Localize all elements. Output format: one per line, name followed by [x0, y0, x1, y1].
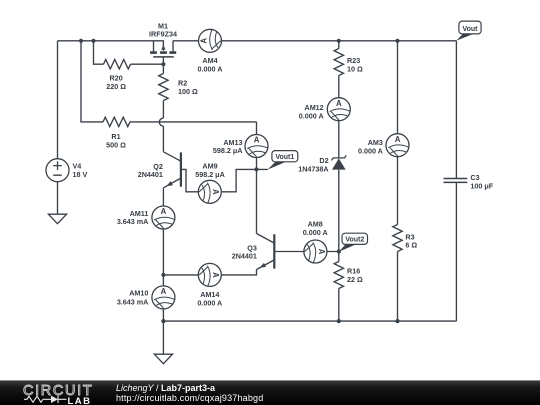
svg-text:2N4401: 2N4401 — [138, 170, 163, 179]
svg-text:500 Ω: 500 Ω — [106, 140, 126, 149]
svg-text:598.2 μA: 598.2 μA — [213, 146, 243, 155]
svg-text:0.000 A: 0.000 A — [198, 64, 223, 73]
svg-text:AM10: AM10 — [129, 288, 148, 297]
svg-text:18 V: 18 V — [73, 170, 88, 179]
svg-text:IRF9Z34: IRF9Z34 — [149, 30, 177, 39]
svg-text:Vout2: Vout2 — [345, 237, 364, 244]
svg-text:0.000 A: 0.000 A — [358, 146, 383, 155]
svg-text:598.2 μA: 598.2 μA — [195, 170, 225, 179]
svg-text:2N4401: 2N4401 — [232, 252, 257, 261]
svg-text:220 Ω: 220 Ω — [106, 82, 126, 91]
svg-text:6 Ω: 6 Ω — [405, 241, 417, 250]
svg-text:Vout1: Vout1 — [275, 154, 294, 161]
svg-text:0.000 A: 0.000 A — [299, 112, 324, 121]
svg-text:100 μF: 100 μF — [470, 181, 493, 190]
svg-text:0.000 A: 0.000 A — [303, 228, 328, 237]
svg-text:LAB: LAB — [68, 396, 92, 405]
svg-text:Vout: Vout — [462, 26, 478, 33]
svg-text:22 Ω: 22 Ω — [347, 275, 363, 284]
svg-text:1N4738A: 1N4738A — [298, 164, 328, 173]
svg-text:100 Ω: 100 Ω — [178, 87, 198, 96]
svg-text:10 Ω: 10 Ω — [347, 64, 363, 73]
svg-text:http://circuitlab.com/cqxaj937: http://circuitlab.com/cqxaj937habgd — [116, 393, 263, 403]
svg-text:R20: R20 — [110, 73, 123, 82]
svg-text:3.643 mA: 3.643 mA — [117, 217, 149, 226]
svg-text:0.000 A: 0.000 A — [197, 299, 222, 308]
svg-text:3.643 mA: 3.643 mA — [117, 297, 149, 306]
svg-text:LichengY / Lab7-part3-a: LichengY / Lab7-part3-a — [116, 383, 216, 393]
